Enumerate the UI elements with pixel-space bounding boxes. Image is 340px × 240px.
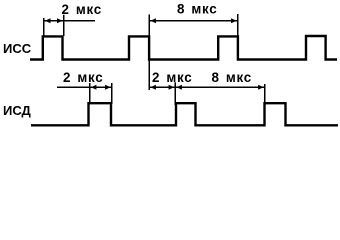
svg-text:8 мкс: 8 мкс [212, 70, 252, 85]
svg-text:8 мкс: 8 мкс [177, 2, 217, 17]
arrowhead left (top 2 мкс) [45, 18, 51, 23]
dimension line 2 мкс (bottom left) with left tail [57, 86, 112, 88]
extension line right of 8 мкс (top) [237, 14, 239, 36]
extension line left of 2 мкс (bottom left) [89, 83, 91, 104]
extension line right (ИСД P3 rising edge) [264, 84, 266, 105]
dimension line 2 мкс + 8 мкс (bottom middle) [149, 86, 264, 88]
svg-text:2 мкс: 2 мкс [62, 2, 102, 17]
svg-text:2 мкс: 2 мкс [63, 70, 103, 85]
arrowhead right (top 2 мкс) [57, 18, 63, 23]
wire ИСС waveform (pulses P1-P4) [30, 36, 337, 60]
arrowhead right (top 8 мкс) [231, 18, 237, 23]
svg-text:ИСД: ИСД [3, 103, 32, 118]
wire ИСД waveform (pulses P1-P3) [31, 103, 338, 125]
dimension line 2 мкс (top) with tail [44, 20, 95, 22]
arrowhead left (top 8 мкс) [150, 18, 156, 23]
dimension line 8 мкс (top) [149, 20, 238, 22]
extension line right of 2 мкс (bottom left) [111, 83, 113, 104]
arrowhead right (bottom-middle 2 мкс) [169, 85, 175, 90]
arrowhead left (bottom 8 мкс) [176, 85, 182, 90]
arrowhead left (bottom-middle 2 мкс) [150, 85, 156, 90]
arrowhead left (bottom-left 2 мкс) [91, 85, 97, 90]
extension line left of 8 мкс (top), continues down to lower dimension [148, 15, 150, 91]
arrowhead right (bottom 8 мкс) [258, 85, 264, 90]
extension line left of 2 мкс (top) [43, 18, 45, 36]
extension line middle (ИСД P2 rising edge) [174, 82, 176, 105]
extension line right of 2 мкс (top) [63, 15, 65, 36]
arrowhead right (bottom-left 2 мкс) [105, 85, 111, 90]
svg-text:ИСС: ИСС [3, 41, 32, 56]
svg-text:2 мкс: 2 мкс [152, 70, 192, 85]
